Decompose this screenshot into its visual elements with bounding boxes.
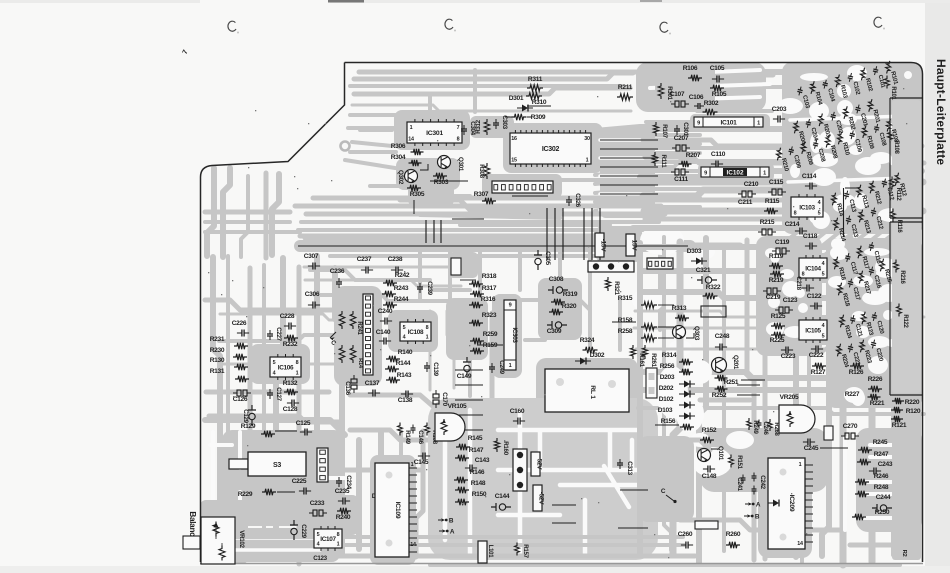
svg-text:9: 9 — [704, 170, 707, 176]
svg-text:1: 1 — [763, 170, 766, 176]
svg-text:Haupt-Leiterplatte: Haupt-Leiterplatte — [934, 59, 948, 165]
capacitor C123 — [775, 297, 798, 313]
capacitor C207 — [672, 135, 690, 151]
IC IC302 — [510, 130, 591, 167]
svg-text:R240: R240 — [336, 514, 351, 521]
svg-text:R246: R246 — [874, 473, 889, 480]
svg-text:R106: R106 — [683, 65, 698, 72]
svg-text:R251: R251 — [724, 379, 739, 386]
capacitor C229 — [290, 520, 307, 540]
svg-text:R313: R313 — [672, 305, 687, 312]
capacitor C245 — [803, 439, 819, 453]
svg-text:5: 5 — [822, 272, 825, 278]
resistor R144 — [385, 360, 411, 372]
resistor R157 — [515, 543, 529, 559]
svg-text:1: 1 — [296, 371, 299, 377]
resistor R114 — [830, 192, 844, 218]
page number 7 — [182, 49, 190, 56]
svg-text:C129: C129 — [242, 409, 249, 423]
transistor Q303 — [673, 326, 701, 341]
resistor R131 — [210, 368, 249, 382]
resistor R323 — [469, 312, 497, 326]
node A — [439, 529, 455, 536]
svg-text:C136: C136 — [344, 381, 351, 395]
resistor R108 — [888, 130, 899, 155]
svg-text:D302: D302 — [590, 352, 605, 359]
svg-text:IC108: IC108 — [408, 329, 424, 336]
wire — [452, 218, 484, 220]
svg-text:R120: R120 — [906, 408, 921, 415]
svg-text:C270: C270 — [843, 423, 858, 430]
resistor R226 — [868, 376, 883, 392]
svg-text:VR105: VR105 — [448, 403, 467, 410]
potentiometer VR102 — [201, 517, 245, 564]
svg-text:C242: C242 — [759, 475, 766, 489]
resistor R151 — [729, 455, 743, 470]
svg-text:1: 1 — [337, 542, 340, 548]
wire — [600, 148, 658, 150]
svg-text:R157: R157 — [522, 544, 529, 558]
svg-text:C313: C313 — [626, 461, 633, 475]
svg-text:R252: R252 — [712, 392, 727, 399]
capacitor C241 — [736, 475, 746, 492]
resistor R324 — [580, 337, 598, 353]
svg-text:C241: C241 — [736, 477, 743, 491]
capacitor C234 — [336, 475, 352, 489]
svg-text:R319: R319 — [563, 291, 578, 298]
resistor R126 — [849, 363, 864, 376]
resistor R116 — [891, 209, 902, 234]
svg-text:Q301: Q301 — [457, 157, 464, 172]
svg-text:R14: R14 — [357, 358, 363, 369]
capacitor C129 — [242, 405, 256, 425]
svg-text:C125: C125 — [296, 420, 311, 427]
svg-text:R130: R130 — [210, 357, 225, 364]
svg-text:R149: R149 — [404, 430, 411, 444]
wire — [425, 220, 427, 243]
capacitor C160 — [510, 408, 525, 425]
svg-text:C237: C237 — [357, 256, 372, 263]
svg-text:R314: R314 — [662, 352, 677, 359]
capacitor C239 — [417, 281, 433, 295]
resistor R310 — [526, 93, 551, 106]
svg-text:C326: C326 — [574, 193, 581, 207]
svg-text:8: 8 — [794, 211, 797, 217]
svg-text:IC302: IC302 — [542, 146, 560, 153]
svg-text:R309: R309 — [531, 114, 546, 121]
capacitor C216 — [868, 266, 882, 290]
resistor R145 — [456, 435, 483, 450]
svg-text:8: 8 — [337, 532, 340, 538]
svg-text:B: B — [755, 514, 760, 521]
resistor R118 — [832, 256, 846, 282]
resistor R252 — [712, 386, 728, 399]
node B2 — [744, 514, 760, 521]
capacitor C103 — [796, 86, 810, 110]
capacitor C105 — [710, 65, 725, 83]
svg-text:14: 14 — [408, 137, 414, 143]
svg-text:C106: C106 — [689, 94, 704, 101]
resistor R213 — [857, 209, 871, 235]
edge connector frame upper — [890, 98, 923, 218]
svg-text:R116: R116 — [896, 220, 902, 234]
svg-text:R322: R322 — [706, 284, 721, 291]
capacitor C218 — [795, 276, 814, 291]
resistor R125 — [771, 313, 786, 329]
svg-text:R245: R245 — [873, 439, 888, 446]
resistor R168 — [425, 423, 438, 445]
resistor R156 — [655, 418, 694, 430]
svg-text:IC106: IC106 — [278, 364, 294, 371]
svg-text:C245: C245 — [804, 445, 819, 452]
resistor R249 — [747, 418, 758, 435]
svg-text:C210: C210 — [744, 181, 759, 188]
resistor R218 — [836, 282, 850, 308]
resistor R305 — [407, 185, 425, 214]
capacitor C309 — [547, 321, 567, 335]
svg-text:C222: C222 — [809, 352, 824, 359]
capacitor C101 — [872, 66, 886, 90]
svg-text:R121: R121 — [892, 422, 907, 429]
svg-text:D103: D103 — [658, 407, 673, 414]
svg-text:16: 16 — [511, 136, 517, 142]
svg-text:C105: C105 — [710, 65, 725, 72]
svg-text:5: 5 — [818, 211, 821, 217]
svg-text:IC103: IC103 — [799, 204, 815, 211]
capacitor C238 — [388, 256, 403, 274]
resistor R2xx — [901, 550, 907, 557]
node B — [438, 518, 454, 525]
svg-text:4: 4 — [273, 371, 276, 377]
resistor R104 — [809, 81, 823, 107]
resistor R311 — [527, 76, 543, 91]
resistor R261 — [642, 345, 657, 368]
capacitor C149 — [457, 357, 472, 380]
svg-text:R315: R315 — [618, 295, 633, 302]
capacitor C313 — [617, 459, 633, 476]
svg-text:R318: R318 — [482, 273, 497, 280]
svg-text:C244: C244 — [876, 494, 891, 501]
svg-text:R219: R219 — [769, 277, 784, 284]
svg-text:R227: R227 — [845, 391, 860, 398]
svg-text:R152: R152 — [702, 427, 717, 434]
wire — [591, 208, 593, 260]
connector strip — [647, 258, 673, 269]
svg-text:R312: R312 — [475, 119, 482, 133]
svg-text:1: 1 — [586, 158, 589, 164]
svg-text:C118: C118 — [803, 233, 818, 240]
svg-text:R105: R105 — [712, 91, 727, 98]
resistor R214 — [832, 217, 846, 243]
svg-text:C308: C308 — [549, 276, 564, 283]
svg-text:R143: R143 — [397, 372, 412, 379]
capacitor C226 — [232, 320, 249, 337]
resistor R246 — [855, 473, 889, 485]
resistor R202 — [842, 106, 856, 132]
capacitor C137 — [365, 380, 380, 397]
resistor R110 — [836, 131, 850, 157]
capacitor C208 — [812, 139, 826, 163]
svg-text:S3: S3 — [273, 462, 281, 469]
resistor R245 — [858, 439, 888, 453]
capacitor C222 — [809, 346, 824, 360]
svg-text:R125: R125 — [771, 313, 786, 320]
resistor R302 — [703, 100, 719, 115]
svg-text:VR102: VR102 — [238, 530, 245, 548]
wire — [298, 245, 688, 247]
resistor R101 — [884, 60, 898, 86]
wire — [620, 489, 648, 491]
capacitor C308 — [548, 276, 568, 294]
resistor R229 — [238, 489, 295, 498]
diode D202 — [659, 385, 695, 398]
copper trace layer — [200, 62, 924, 565]
inductor L101 — [478, 541, 493, 563]
svg-text:A: A — [756, 502, 761, 509]
capacitor C138 — [398, 391, 413, 405]
wire — [455, 369, 483, 371]
switch S3 — [229, 452, 306, 476]
svg-text:C115: C115 — [769, 179, 784, 186]
capacitor C301 — [674, 122, 689, 136]
IC IC107 — [313, 526, 342, 562]
resistor R132 — [283, 380, 298, 395]
capacitor C203 — [772, 106, 787, 123]
wire — [455, 399, 483, 401]
resistor R230 — [210, 347, 247, 360]
svg-text:R146: R146 — [470, 469, 485, 476]
test point C2 — [661, 488, 677, 503]
svg-text:R250: R250 — [875, 509, 890, 516]
svg-text:C243: C243 — [878, 461, 893, 468]
resistor R220 — [892, 398, 920, 406]
wire — [599, 208, 601, 260]
capacitor C244 — [872, 494, 892, 512]
svg-text:9: 9 — [697, 120, 700, 126]
svg-text:R305: R305 — [410, 191, 425, 198]
svg-text:D102: D102 — [659, 396, 674, 403]
capacitor C125 — [296, 420, 312, 436]
resistor R103 — [834, 74, 848, 100]
wire — [737, 384, 760, 386]
svg-text:VR205: VR205 — [780, 394, 799, 401]
capacitor C148 — [702, 466, 717, 481]
diode D303 — [687, 248, 707, 265]
svg-text:C111: C111 — [674, 176, 688, 183]
capacitor C270 — [841, 423, 859, 439]
capacitor C146 — [411, 425, 425, 445]
wire — [618, 527, 648, 529]
resistor R123 — [860, 311, 874, 337]
resistor R240 — [336, 508, 351, 521]
connector P101 — [513, 449, 527, 491]
svg-text:C149: C149 — [457, 373, 472, 380]
svg-text:5: 5 — [403, 325, 406, 331]
svg-text:1: 1 — [799, 462, 802, 468]
resistor R247 — [857, 451, 889, 465]
resistor R161 — [630, 345, 645, 368]
svg-text:5: 5 — [317, 532, 320, 538]
wire — [600, 193, 658, 195]
svg-text:C110: C110 — [711, 151, 726, 158]
svg-text:R159: R159 — [483, 342, 498, 349]
resistor R211 — [617, 84, 633, 100]
svg-text:C138: C138 — [398, 397, 413, 404]
svg-text:R321: R321 — [613, 281, 620, 295]
resistor R256 — [660, 363, 693, 375]
svg-text:R256: R256 — [660, 363, 675, 370]
svg-text:14: 14 — [797, 541, 803, 547]
svg-text:8: 8 — [426, 325, 429, 331]
net label 15V — [626, 234, 638, 256]
capacitor C242 — [752, 473, 767, 495]
IC IC209 — [768, 458, 813, 549]
svg-text:C160: C160 — [510, 408, 525, 415]
resistor R314 — [662, 352, 693, 365]
resistor R106 — [683, 65, 702, 81]
svg-text:R207: R207 — [686, 152, 701, 159]
resistor R120 — [891, 407, 921, 415]
resistor R208 — [824, 134, 838, 160]
resistor R231 — [210, 336, 248, 349]
svg-text:8: 8 — [296, 360, 299, 366]
mounting hole right — [903, 70, 914, 81]
wire — [433, 220, 435, 243]
wire — [552, 522, 576, 524]
capacitor C240 — [378, 308, 393, 325]
svg-text:R129: R129 — [241, 423, 256, 430]
svg-text:C225: C225 — [292, 478, 307, 485]
capacitor C201 — [854, 104, 868, 128]
capacitor C117 — [844, 253, 858, 277]
resistor R321 — [605, 277, 620, 296]
svg-text:R242: R242 — [395, 272, 410, 279]
wire — [600, 184, 658, 186]
capacitor C126 — [233, 390, 251, 403]
svg-text:C233: C233 — [310, 500, 325, 507]
svg-text:1: 1 — [410, 125, 413, 131]
svg-text:R241: R241 — [356, 321, 362, 335]
svg-text:1: 1 — [509, 363, 512, 369]
capacitor C108 — [873, 123, 887, 147]
svg-text:L101: L101 — [487, 545, 493, 558]
IC IC105 — [799, 317, 827, 343]
resistor R209 — [799, 141, 813, 167]
svg-text:R229: R229 — [238, 491, 253, 498]
resistor R158 — [612, 317, 674, 330]
svg-text:R122: R122 — [902, 314, 908, 328]
svg-text:4: 4 — [822, 323, 825, 329]
resistor R129 — [241, 423, 297, 437]
svg-text:C146: C146 — [417, 430, 424, 444]
resistor R219 — [769, 271, 784, 284]
resistor R215 — [758, 219, 776, 235]
resistor R225 — [770, 332, 785, 344]
svg-text:Q201: Q201 — [732, 355, 739, 370]
capacitor C209 — [788, 146, 802, 170]
mounting hole — [341, 142, 350, 151]
wire — [554, 208, 556, 260]
capacitor C246 — [757, 420, 769, 436]
svg-text:30: 30 — [584, 136, 590, 142]
resistor R313 — [672, 305, 689, 321]
wire — [455, 414, 483, 416]
capacitor C306 — [305, 291, 320, 309]
title Haupt-Leiterplatte — [934, 59, 948, 165]
svg-text:IC102: IC102 — [726, 169, 743, 176]
IC IC106 — [270, 354, 301, 380]
svg-text:R132: R132 — [283, 380, 298, 387]
resistor R248 — [855, 484, 889, 497]
capacitor C212 — [870, 207, 884, 231]
IC IC103 — [791, 194, 823, 220]
capacitor C113 — [843, 190, 857, 214]
capacitor C202 — [830, 111, 844, 135]
svg-text:4: 4 — [317, 542, 320, 548]
resistor R259 — [470, 331, 498, 344]
resistor R147 — [455, 447, 484, 461]
resistor R250 — [852, 509, 890, 520]
capacitor C116 — [868, 242, 882, 266]
svg-text:R147: R147 — [469, 447, 484, 454]
svg-text:C126: C126 — [233, 396, 248, 403]
svg-text:D301: D301 — [509, 95, 524, 102]
label Balance — [188, 511, 197, 541]
wire — [844, 188, 858, 237]
svg-text:9: 9 — [509, 303, 512, 309]
svg-text:C226: C226 — [232, 320, 247, 327]
svg-text:C238: C238 — [388, 256, 403, 263]
small pad — [824, 426, 833, 440]
capacitor C110 — [711, 151, 726, 168]
resistor R-d — [350, 345, 363, 369]
capacitor C225 — [292, 478, 311, 495]
svg-text:R150: R150 — [472, 491, 487, 498]
svg-text:R323: R323 — [482, 312, 497, 319]
svg-text:Q101: Q101 — [717, 446, 724, 461]
resistor R108 — [885, 118, 899, 144]
resistor R232 — [283, 335, 298, 348]
IC IC102 — [701, 167, 769, 177]
resistor R115 — [764, 198, 780, 214]
wire — [600, 157, 658, 159]
wire — [546, 208, 548, 260]
capacitor C139 — [424, 362, 439, 377]
IC IC301 — [407, 119, 462, 146]
svg-text:R320: R320 — [562, 303, 577, 310]
svg-text:C127: C127 — [275, 387, 282, 401]
resistor R143 — [386, 372, 412, 383]
svg-text:R260: R260 — [726, 531, 741, 538]
resistor R317 — [470, 285, 497, 297]
resistor R242 — [383, 272, 410, 286]
svg-text:R232: R232 — [283, 341, 298, 348]
capacitor C107 — [670, 91, 689, 107]
svg-text:R303: R303 — [434, 179, 449, 186]
resistor R113 — [855, 184, 869, 210]
svg-text:IC107: IC107 — [320, 536, 336, 543]
capacitor C114 — [802, 173, 817, 190]
resistor R251 — [715, 375, 766, 386]
wire — [820, 447, 848, 449]
svg-text:4: 4 — [403, 335, 406, 341]
svg-text:R127: R127 — [811, 369, 826, 376]
connector P301 — [588, 261, 634, 272]
resistor R149 — [398, 423, 411, 445]
resistor R316 — [469, 296, 496, 308]
resistor R119 — [769, 253, 784, 269]
capacitor C303 — [493, 115, 508, 129]
